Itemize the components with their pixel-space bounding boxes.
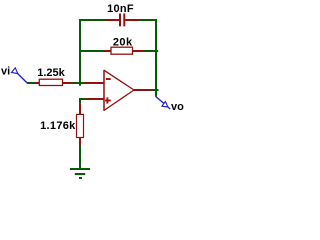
- op-amp U1 non-inverting input stub: [87, 98, 105, 100]
- wire 20k right with junction tick: [143, 50, 159, 52]
- svg-text:vi: vi: [1, 65, 10, 77]
- svg-text:vo: vo: [171, 101, 184, 113]
- resistor 1.176k top lead: [79, 104, 81, 115]
- resistor 20k body: [111, 47, 133, 54]
- resistor 20k left lead: [104, 50, 112, 52]
- capacitor C1 left lead: [105, 19, 119, 21]
- svg-text:10nF: 10nF: [107, 3, 134, 15]
- wire right vertical output node: [155, 19, 157, 97]
- wire inverting input node: [72, 82, 85, 84]
- node vo pin arrowhead: [162, 102, 168, 108]
- wire top rail left segment: [79, 19, 106, 21]
- svg-text:20k: 20k: [113, 37, 133, 49]
- resistor 1.25k right lead: [63, 82, 73, 84]
- resistor 1.176k body: [77, 114, 84, 137]
- wire feedback left vertical with junction tick: [79, 19, 81, 86]
- svg-text:1.176k: 1.176k: [40, 120, 76, 132]
- resistor 1.25k left lead: [35, 82, 40, 84]
- wire 1.176k to ground: [79, 145, 81, 170]
- resistor 1.176k bottom lead: [79, 137, 81, 145]
- resistor 1.25k body: [39, 79, 62, 85]
- wire input segment from vi: [27, 82, 37, 84]
- capacitor C1 right plate: [123, 14, 125, 27]
- wire op-amp output to node: [151, 89, 159, 91]
- op-amp U1 plus sign: [105, 97, 111, 103]
- wire non-inverting input corner: [80, 99, 87, 104]
- svg-text:1.25k: 1.25k: [37, 67, 65, 79]
- op-amp U1 triangle body: [104, 70, 134, 111]
- op-amp U1 minus sign: [106, 78, 111, 80]
- capacitor C1 left plate: [119, 14, 121, 27]
- node vo pin lead: [156, 97, 170, 110]
- resistor 20k right lead: [133, 50, 143, 52]
- ground symbol: [70, 169, 90, 178]
- node vi pin arrowhead: [12, 68, 18, 74]
- node vi pin lead: [18, 74, 28, 84]
- wire 20k left: [79, 50, 104, 52]
- wire top rail right segment: [138, 19, 157, 21]
- capacitor C1 right lead: [125, 19, 139, 21]
- op-amp U1 inverting input stub: [85, 82, 105, 84]
- op-amp U1 output stub: [134, 89, 151, 91]
